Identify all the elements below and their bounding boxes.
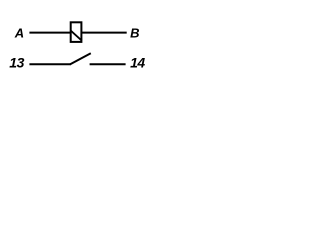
wire 13 to contact pivot	[29, 63, 71, 65]
wire coil to B	[82, 32, 127, 34]
relay coil K1 box	[71, 22, 82, 42]
wire A to coil	[29, 32, 70, 34]
wire contact to 14	[90, 63, 126, 65]
svg-text:13: 13	[9, 55, 24, 71]
NO contact blade	[70, 53, 91, 64]
coil diagonal stroke	[70, 30, 81, 40]
svg-text:A: A	[14, 26, 24, 41]
svg-text:14: 14	[130, 55, 145, 71]
svg-text:B: B	[130, 26, 139, 41]
